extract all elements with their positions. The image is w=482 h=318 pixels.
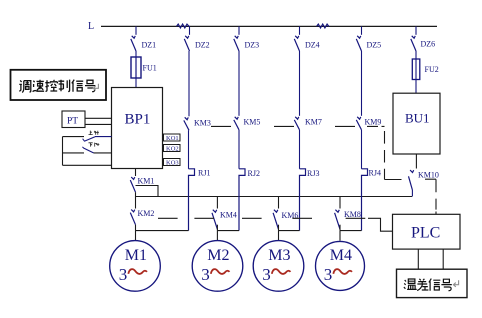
wire jog KM1 to bus xyxy=(136,186,159,197)
svg-text:KM9: KM9 xyxy=(365,118,382,127)
wire PLC to signal box right xyxy=(442,249,444,269)
wire KM9 to RJ4 xyxy=(361,130,363,169)
wire branch3 drop from L xyxy=(238,26,240,34)
backup unit BU1 xyxy=(393,93,440,154)
wire KM5 to RJ2 xyxy=(238,130,240,169)
svg-text:KM7: KM7 xyxy=(305,118,322,127)
svg-text:FU1: FU1 xyxy=(143,64,157,73)
wire DZ2 to KM3 xyxy=(188,51,190,116)
svg-text:PLC: PLC xyxy=(411,225,440,242)
wire branch6 drop from L xyxy=(415,26,417,34)
svg-text:KO3: KO3 xyxy=(166,160,179,167)
wire third input to BP1 xyxy=(63,164,112,166)
svg-text:KM2: KM2 xyxy=(138,209,155,218)
svg-text:KM8: KM8 xyxy=(344,210,361,219)
wire DZ1 to FU1 xyxy=(135,51,137,57)
svg-text:3: 3 xyxy=(324,265,333,284)
contactor KM10 xyxy=(409,170,414,190)
svg-text:3: 3 xyxy=(201,265,210,284)
svg-text:M4: M4 xyxy=(330,247,352,264)
thermal relay RJ2 xyxy=(239,169,245,231)
thermal relay RJ4 xyxy=(362,169,368,231)
wire M4 junction horizontal xyxy=(340,230,362,232)
signal box 温差信号 (temperature difference signal) xyxy=(397,269,468,297)
wire KM3 to RJ1 xyxy=(188,130,190,169)
svg-text:KM5: KM5 xyxy=(244,118,261,127)
dashed link KM9 corner to KM10 xyxy=(367,125,385,127)
wire KM1 pivot to bus xyxy=(135,192,137,208)
wire FU2 to BU1 xyxy=(415,80,417,94)
wire branch5 drop from L xyxy=(361,26,363,34)
wire M3 feed xyxy=(278,231,280,241)
wire M1 feed xyxy=(135,231,137,241)
contactor KM4 xyxy=(212,210,217,230)
dashed control link KM3-KM5-KM7-KM9 xyxy=(211,125,355,127)
svg-text:KO2: KO2 xyxy=(166,146,179,153)
wire M4 feed xyxy=(339,231,341,241)
wire common left vertical for up/down switches xyxy=(62,137,64,166)
return mark after 调速控制信号 xyxy=(93,84,98,91)
fuse FU2 xyxy=(412,59,420,80)
contactor KM3 xyxy=(184,117,189,130)
contactor KM9 xyxy=(356,117,361,130)
svg-text:3: 3 xyxy=(119,265,128,284)
inverter unit BP1 xyxy=(112,88,163,169)
breaker DZ3 xyxy=(234,36,239,51)
motor M3 xyxy=(253,241,304,292)
motor M4 xyxy=(316,241,365,290)
svg-text:RJ2: RJ2 xyxy=(248,169,260,178)
wire KM6 drop from bus xyxy=(278,197,280,209)
wire M2 feed xyxy=(216,231,218,241)
svg-text:DZ1: DZ1 xyxy=(142,41,157,50)
fuse FU1 xyxy=(131,57,141,78)
breaker DZ5 xyxy=(356,36,361,51)
svg-text:DZ3: DZ3 xyxy=(245,41,260,50)
return mark after 温差信号 xyxy=(453,280,458,287)
wire PT to BP1 upper xyxy=(85,117,112,119)
wire break mark 2 on supply line xyxy=(317,24,329,28)
breaker DZ2 xyxy=(184,36,189,51)
switch 下降 (down) input to BP1 xyxy=(63,152,85,154)
wire PT to BP1 lower xyxy=(85,123,112,125)
switch 上升 (up) input to BP1 xyxy=(63,136,85,138)
wire BU1 to KM10 xyxy=(415,154,417,169)
relay output KO2 box xyxy=(164,145,181,152)
wire FU1 to BP1 xyxy=(135,78,137,88)
signal box 调速控制信号 (speed control signal) xyxy=(11,70,107,100)
svg-text:BP1: BP1 xyxy=(125,112,151,128)
label 下降 tiny xyxy=(89,143,100,147)
svg-text:3: 3 xyxy=(262,265,271,284)
wire KM6 to M3 junction xyxy=(278,225,280,231)
wire BP1 to KM1 xyxy=(135,169,137,177)
thermal relay RJ1 xyxy=(189,169,195,231)
svg-text:KO1: KO1 xyxy=(166,135,179,142)
controller PLC box xyxy=(393,214,461,249)
wire KM4 to M2 junction xyxy=(216,225,218,231)
thermal relay RJ3 xyxy=(300,169,306,231)
contactor KM2 xyxy=(130,210,135,225)
wire branch4 drop from L xyxy=(299,26,301,34)
wire DZ4 to KM7 xyxy=(299,51,301,116)
wire KM2 to M1 junction xyxy=(135,225,137,231)
svg-text:BU1: BU1 xyxy=(405,111,430,126)
dashed control link KM2-KM4-KM6-KM8 xyxy=(158,217,365,219)
svg-text:RJ4: RJ4 xyxy=(369,169,381,178)
contactor KM5 xyxy=(234,117,239,130)
svg-text:RJ3: RJ3 xyxy=(307,169,319,178)
wire break mark 1 on supply line xyxy=(177,24,190,28)
svg-text:DZ2: DZ2 xyxy=(195,41,210,50)
svg-text:M3: M3 xyxy=(268,247,290,264)
breaker DZ1 xyxy=(131,36,136,51)
transducer PT box xyxy=(62,111,85,128)
label 上升 tiny xyxy=(89,131,99,135)
wire L top supply line xyxy=(101,25,437,27)
relay output KO3 box xyxy=(164,159,181,166)
wire KM7 to RJ3 xyxy=(299,130,301,169)
svg-text:M2: M2 xyxy=(207,247,229,264)
breaker DZ6 xyxy=(411,36,416,51)
wire link to PLC left xyxy=(368,218,393,231)
wire PLC to signal box left xyxy=(417,249,419,269)
svg-text:RJ1: RJ1 xyxy=(198,169,210,178)
svg-text:FU2: FU2 xyxy=(425,65,439,74)
svg-text:KM4: KM4 xyxy=(220,211,237,220)
relay output KO1 box xyxy=(164,134,181,141)
svg-text:KM3: KM3 xyxy=(194,119,211,128)
contactor KM8 xyxy=(335,210,340,230)
wire DZ3 to KM5 xyxy=(238,51,240,116)
contactor KM1 xyxy=(130,177,135,192)
wire M3 junction horizontal xyxy=(279,230,300,232)
motor M1 xyxy=(110,241,161,292)
contactor KM7 xyxy=(294,117,299,130)
wire DZ6 to FU2 xyxy=(415,51,417,59)
wire M1 junction horizontal xyxy=(136,230,189,232)
svg-text:DZ6: DZ6 xyxy=(421,40,436,49)
wire M2 junction horizontal xyxy=(217,230,239,232)
svg-text:M1: M1 xyxy=(125,247,147,264)
svg-text:KM10: KM10 xyxy=(418,171,439,180)
wire DZ5 to KM9 xyxy=(361,51,363,116)
contactor KM6 xyxy=(273,210,278,230)
wire inverter output bus xyxy=(136,196,413,198)
wire KM8 to M4 junction xyxy=(339,225,341,231)
dashed link KM10 to PLC top xyxy=(425,179,436,214)
svg-text:DZ5: DZ5 xyxy=(367,41,382,50)
wire KM10 to bus xyxy=(411,190,413,197)
wire branch1 drop from L xyxy=(135,26,137,34)
svg-text:PT: PT xyxy=(67,117,78,127)
wire KM4 drop from bus xyxy=(216,197,218,209)
wire KM8 drop from bus xyxy=(339,197,341,209)
wire branch2 drop from L xyxy=(189,26,191,34)
breaker DZ4 xyxy=(294,36,299,51)
svg-text:KM1: KM1 xyxy=(138,177,155,186)
motor M2 xyxy=(192,241,243,292)
svg-text:DZ4: DZ4 xyxy=(305,41,320,50)
svg-text:L: L xyxy=(88,21,94,32)
